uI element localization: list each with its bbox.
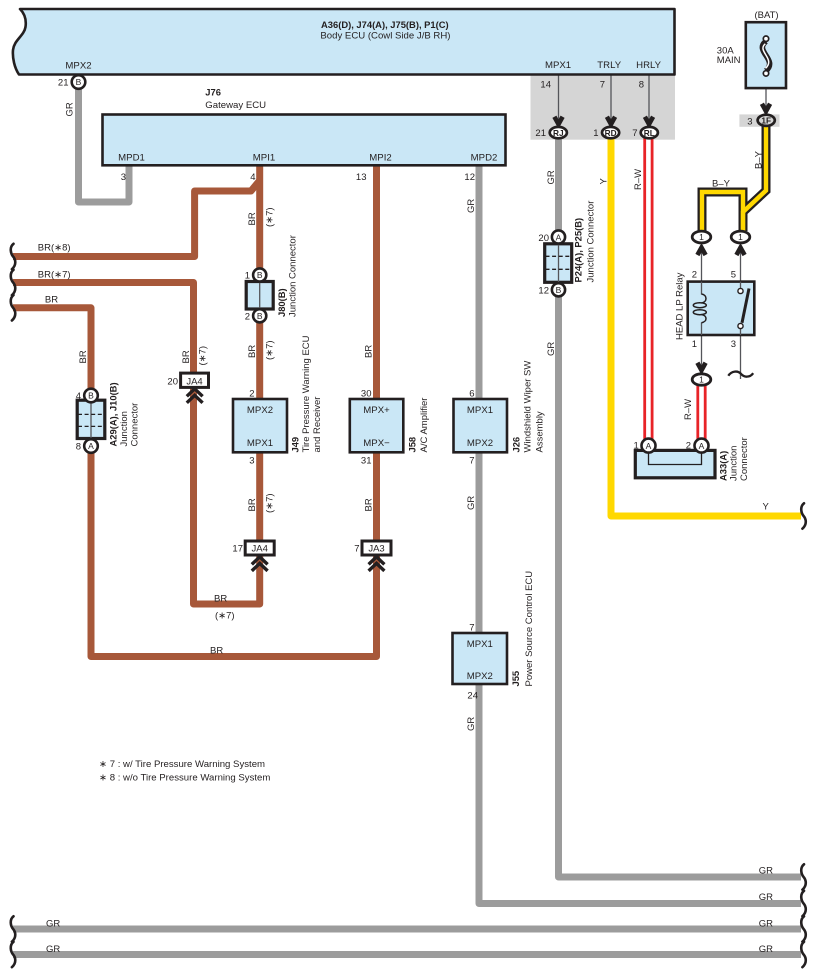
P24 pin 12 circle B	[552, 283, 565, 296]
thin line Body ECU MPX1 pin 14 to RJ with arrowhead	[558, 76, 560, 121]
svg-text:(∗7): (∗7)	[265, 493, 276, 513]
svg-text:7: 7	[632, 128, 637, 139]
svg-text:7: 7	[600, 80, 605, 91]
A33 pin 1 circle A	[642, 439, 656, 453]
P24 pin 20 circle A	[552, 230, 565, 243]
svg-text:1: 1	[699, 375, 704, 385]
svg-text:4: 4	[76, 391, 81, 402]
svg-text:24: 24	[467, 691, 478, 702]
svg-text:J76: J76	[205, 87, 221, 98]
svg-text:1: 1	[738, 232, 743, 242]
wire GR from Body ECU MPX2 pin 21 to Gateway MPD1 pin 3	[79, 86, 130, 202]
HEAD LP Relay box	[688, 282, 755, 335]
svg-text:Connector: Connector	[739, 437, 750, 481]
svg-text:1: 1	[245, 271, 250, 282]
wire GR from Gateway MPD2 pin 12 through J26 and J55 to right edge	[479, 163, 801, 904]
svg-text:1: 1	[699, 232, 704, 242]
svg-text:14: 14	[540, 80, 551, 91]
connector oval RL	[641, 127, 658, 138]
break squiggle right GR 2	[801, 891, 806, 916]
break squiggle left BR(*8)	[11, 244, 16, 269]
break squiggle left BR	[11, 295, 16, 320]
svg-text:A: A	[88, 441, 94, 451]
svg-text:R–W: R–W	[683, 399, 694, 420]
svg-text:MPX2: MPX2	[247, 405, 273, 416]
J80 pin 2 circle B	[253, 309, 266, 322]
svg-text:2: 2	[245, 312, 250, 323]
wire Y from RD connector to right edge	[611, 136, 801, 516]
svg-text:BR: BR	[247, 498, 258, 511]
svg-text:1: 1	[692, 339, 697, 350]
A29 pin 8 circle A	[84, 439, 98, 453]
A29(A) J10(B) junction connector box	[77, 400, 105, 438]
thin line Body ECU TRLY pin 7 to RD with arrowhead	[610, 76, 612, 121]
svg-text:MPX1: MPX1	[467, 405, 493, 416]
svg-text:JA3: JA3	[368, 544, 384, 555]
relay pin1 oval 1	[692, 374, 711, 385]
svg-text:21: 21	[58, 78, 69, 89]
svg-text:30: 30	[361, 389, 372, 400]
J58 A/C Amplifier box	[350, 399, 404, 452]
svg-text:BR(∗7): BR(∗7)	[38, 270, 71, 281]
svg-text:B: B	[257, 270, 263, 280]
svg-text:(∗7): (∗7)	[198, 346, 209, 366]
svg-text:B: B	[556, 285, 562, 295]
svg-text:3: 3	[121, 172, 126, 183]
relay coil	[701, 282, 703, 295]
svg-text:MPI2: MPI2	[369, 153, 391, 164]
svg-text:MPD2: MPD2	[471, 153, 498, 164]
svg-text:HEAD LP Relay: HEAD LP Relay	[675, 272, 686, 340]
connector oval RJ	[550, 127, 567, 138]
wire B-Y from 1F connector to head lamp relay ovals (black outline)	[743, 126, 766, 231]
svg-text:GR: GR	[466, 717, 477, 731]
JA4 connector pin 17 box	[245, 541, 274, 555]
J49 Tire Pressure Warning ECU box	[233, 399, 287, 452]
JA4 pin 17 chevron	[252, 557, 268, 571]
A33 internal bus bar	[649, 452, 702, 465]
A33 pin 2 circle A	[695, 439, 709, 453]
A29 pin 4 circle B	[84, 389, 98, 403]
svg-text:GR: GR	[759, 944, 773, 955]
svg-text:Body ECU (Cowl Side J/B RH): Body ECU (Cowl Side J/B RH)	[320, 31, 450, 42]
thin line B-Y oval left to relay pin 2 with up arrowhead	[701, 250, 703, 282]
svg-text:Junction: Junction	[119, 411, 130, 446]
svg-text:JA4: JA4	[252, 544, 268, 555]
wire R-W from RL connector to A33 pin 1 (twin red lines)	[645, 136, 652, 445]
svg-text:A/C Amplifier: A/C Amplifier	[419, 398, 430, 453]
svg-text:A: A	[699, 441, 705, 451]
P24 dashed row separators	[546, 256, 572, 269]
svg-text:MPD1: MPD1	[118, 153, 145, 164]
wire GR bottom horizontal 4	[13, 951, 801, 958]
svg-text:(∗7): (∗7)	[265, 207, 276, 227]
B-Y oval 1 right	[731, 231, 750, 243]
connector oval 1F	[758, 115, 775, 126]
svg-text:B: B	[257, 311, 263, 321]
svg-text:Junction Connector: Junction Connector	[586, 201, 597, 283]
svg-text:BR: BR	[247, 345, 258, 358]
svg-text:13: 13	[356, 172, 367, 183]
wire BR from J49 pin 3 to JA4 pin 17	[256, 453, 263, 546]
P24(A) P25(B) junction connector box	[545, 244, 572, 282]
svg-text:GR: GR	[466, 199, 477, 213]
svg-text:(∗7): (∗7)	[265, 340, 276, 360]
svg-text:BR: BR	[214, 594, 227, 605]
svg-text:GR: GR	[759, 919, 773, 930]
break squiggle right GR 3	[801, 916, 806, 941]
svg-text:Junction Connector: Junction Connector	[288, 235, 299, 317]
svg-text:1: 1	[634, 441, 639, 452]
svg-text:BR(∗8): BR(∗8)	[38, 243, 71, 254]
svg-text:4: 4	[250, 172, 255, 183]
wire R-W from relay pin 1 oval to A33 pin 2 (twin red lines)	[698, 384, 705, 445]
svg-text:J49: J49	[290, 437, 301, 453]
svg-text:8: 8	[639, 80, 644, 91]
svg-text:∗ 7 : w/ Tire Pressure Warning: ∗ 7 : w/ Tire Pressure Warning System	[99, 759, 265, 770]
break squiggle right GR 1	[801, 864, 806, 889]
svg-text:MPX1: MPX1	[247, 438, 273, 449]
svg-text:Y: Y	[763, 502, 770, 513]
svg-text:20: 20	[167, 377, 178, 388]
svg-text:12: 12	[538, 286, 549, 297]
Body ECU box A36(D) J74(A) J75(B) P1(C)	[13, 9, 675, 75]
Gateway ECU box J76	[103, 115, 506, 166]
svg-text:3: 3	[747, 116, 752, 127]
svg-text:BR: BR	[247, 212, 258, 225]
svg-text:MPI1: MPI1	[253, 153, 275, 164]
wire BR branch from MPI1 to left edge BR(*8)	[13, 181, 260, 257]
svg-text:21: 21	[535, 128, 546, 139]
JA4 pin 20 chevron	[187, 389, 203, 403]
svg-text:A: A	[556, 233, 562, 243]
relay switch	[740, 282, 742, 335]
svg-text:17: 17	[232, 544, 243, 555]
svg-text:B–Y: B–Y	[712, 179, 731, 190]
thin line relay pin 3 down to cut tilde	[740, 335, 742, 379]
svg-text:RD: RD	[605, 128, 617, 138]
svg-text:12: 12	[464, 172, 475, 183]
J80 pin 1 circle B	[253, 268, 266, 281]
fuse element	[762, 41, 769, 71]
wire BR from left edge through A29 junction connector to JA3 pin 7	[13, 308, 377, 657]
thin line B-Y oval right to relay pin 5 with up arrowhead	[740, 250, 742, 282]
svg-text:MPX−: MPX−	[363, 438, 390, 449]
svg-text:B: B	[76, 77, 82, 87]
svg-text:6: 6	[469, 389, 474, 400]
thin line Body ECU HRLY pin 8 to RL with arrowhead	[648, 76, 650, 121]
svg-text:P24(A), P25(B): P24(A), P25(B)	[573, 218, 584, 283]
wire BR from Gateway MPI1 pin 4 through J80 to J49	[256, 163, 263, 399]
svg-text:BR: BR	[78, 350, 89, 363]
svg-text:MPX1: MPX1	[545, 60, 571, 71]
JA3 pin 7 chevron	[369, 557, 385, 571]
svg-text:31: 31	[361, 456, 372, 467]
svg-text:J26: J26	[511, 437, 522, 453]
svg-text:and Receiver: and Receiver	[312, 397, 323, 453]
svg-text:JA4: JA4	[186, 377, 202, 388]
svg-text:GR: GR	[466, 496, 477, 510]
svg-text:7: 7	[469, 623, 474, 634]
wire B-Y yellow core	[743, 126, 766, 231]
svg-text:MAIN: MAIN	[717, 55, 741, 66]
svg-text:7: 7	[354, 544, 359, 555]
svg-text:GR: GR	[759, 892, 773, 903]
svg-text:BR: BR	[364, 345, 375, 358]
svg-text:J55: J55	[510, 671, 521, 687]
svg-text:3: 3	[731, 339, 736, 350]
JA4 connector pin 20 box	[181, 373, 209, 387]
svg-text:A: A	[646, 441, 652, 451]
svg-text:BR: BR	[210, 646, 223, 657]
wire BR from J58 pin 31 to JA3 pin 7	[373, 453, 380, 546]
J80(B) junction connector box	[246, 282, 273, 310]
svg-text:TRLY: TRLY	[597, 60, 621, 71]
svg-text:(∗7): (∗7)	[215, 611, 235, 622]
break squiggle left GR bottom 2	[11, 942, 16, 967]
wire GR from RJ connector through P24 junction connector to right edge	[559, 136, 802, 877]
B-Y oval 1 left	[692, 231, 711, 243]
svg-text:7: 7	[469, 456, 474, 467]
svg-text:MPX2: MPX2	[65, 61, 91, 72]
J55 Power Source Control ECU box	[453, 633, 508, 684]
svg-text:MPX1: MPX1	[467, 639, 493, 650]
fuse 30A MAIN box	[746, 22, 786, 88]
wire GR bottom horizontal 3	[13, 926, 801, 933]
gray background strip behind 1F connector	[739, 114, 779, 126]
svg-text:Assembly: Assembly	[535, 411, 546, 452]
svg-text:B–Y: B–Y	[754, 150, 765, 169]
svg-text:(BAT): (BAT)	[754, 10, 778, 21]
svg-text:A29(A), J10(B): A29(A), J10(B)	[108, 382, 119, 446]
svg-text:MPX2: MPX2	[467, 438, 493, 449]
wire BR from Gateway MPI2 pin 13 to J58	[373, 163, 380, 399]
svg-text:Y: Y	[599, 178, 610, 185]
A33(A) junction connector box	[635, 450, 715, 477]
svg-text:GR: GR	[759, 866, 773, 877]
gray background strip behind RJ/RD/RL connectors	[531, 75, 676, 140]
svg-text:GR: GR	[46, 919, 60, 930]
svg-text:Power Source Control ECU: Power Source Control ECU	[524, 571, 535, 687]
A29 dashed row separators	[78, 414, 104, 426]
svg-text:2: 2	[249, 389, 254, 400]
svg-text:1: 1	[593, 128, 598, 139]
svg-text:HRLY: HRLY	[636, 60, 661, 71]
svg-text:Connector: Connector	[130, 403, 141, 447]
wire BR(*7) from left edge down and up to JA4 pin 17	[13, 283, 260, 605]
svg-text:Junction: Junction	[729, 446, 740, 481]
connector oval 21 B at Body ECU MPX2	[72, 75, 86, 89]
svg-text:BR: BR	[181, 350, 192, 363]
JA3 connector pin 7 box	[362, 541, 391, 555]
svg-text:RJ: RJ	[553, 128, 564, 138]
thin line fuse to 1F connector with arrowhead	[765, 89, 767, 108]
tilde cut symbol below relay pin 3	[728, 372, 753, 377]
svg-text:5: 5	[731, 270, 736, 281]
svg-text:2: 2	[692, 270, 697, 281]
svg-text:BR: BR	[364, 498, 375, 511]
svg-text:GR: GR	[546, 170, 557, 184]
svg-text:∗ 8 : w/o Tire Pressure Warnin: ∗ 8 : w/o Tire Pressure Warning System	[99, 773, 270, 784]
break squiggle right GR 4	[801, 942, 806, 967]
break squiggle left BR(*7)	[11, 270, 16, 295]
svg-text:GR: GR	[65, 102, 76, 116]
svg-text:BR: BR	[45, 295, 58, 306]
connector oval RD	[602, 127, 619, 138]
svg-text:GR: GR	[546, 342, 557, 356]
svg-text:3: 3	[249, 456, 254, 467]
svg-text:J58: J58	[407, 437, 418, 453]
break squiggle left GR bottom 1	[11, 916, 16, 941]
svg-text:A36(D), J74(A), J75(B), P1(C): A36(D), J74(A), J75(B), P1(C)	[321, 19, 449, 30]
svg-text:GR: GR	[46, 944, 60, 955]
thin line relay pin 1 down to oval with down arrowhead	[701, 335, 703, 366]
svg-text:20: 20	[538, 233, 549, 244]
svg-text:A33(A): A33(A)	[718, 451, 729, 481]
break squiggle right Y	[801, 503, 806, 528]
svg-text:2: 2	[686, 441, 691, 452]
svg-text:RL: RL	[644, 128, 655, 138]
svg-text:R–W: R–W	[633, 169, 644, 190]
svg-text:Gateway ECU: Gateway ECU	[205, 100, 266, 111]
J26 Windshield Wiper SW box	[454, 399, 508, 452]
svg-text:B: B	[88, 391, 94, 401]
svg-text:MPX+: MPX+	[363, 405, 390, 416]
svg-text:8: 8	[76, 442, 81, 453]
svg-text:J80(B): J80(B)	[276, 288, 287, 317]
svg-text:Windshield Wiper SW: Windshield Wiper SW	[523, 361, 534, 453]
svg-text:MPX2: MPX2	[467, 671, 493, 682]
svg-text:1F: 1F	[761, 116, 771, 126]
svg-text:Tire Pressure Warning ECU: Tire Pressure Warning ECU	[301, 335, 312, 452]
